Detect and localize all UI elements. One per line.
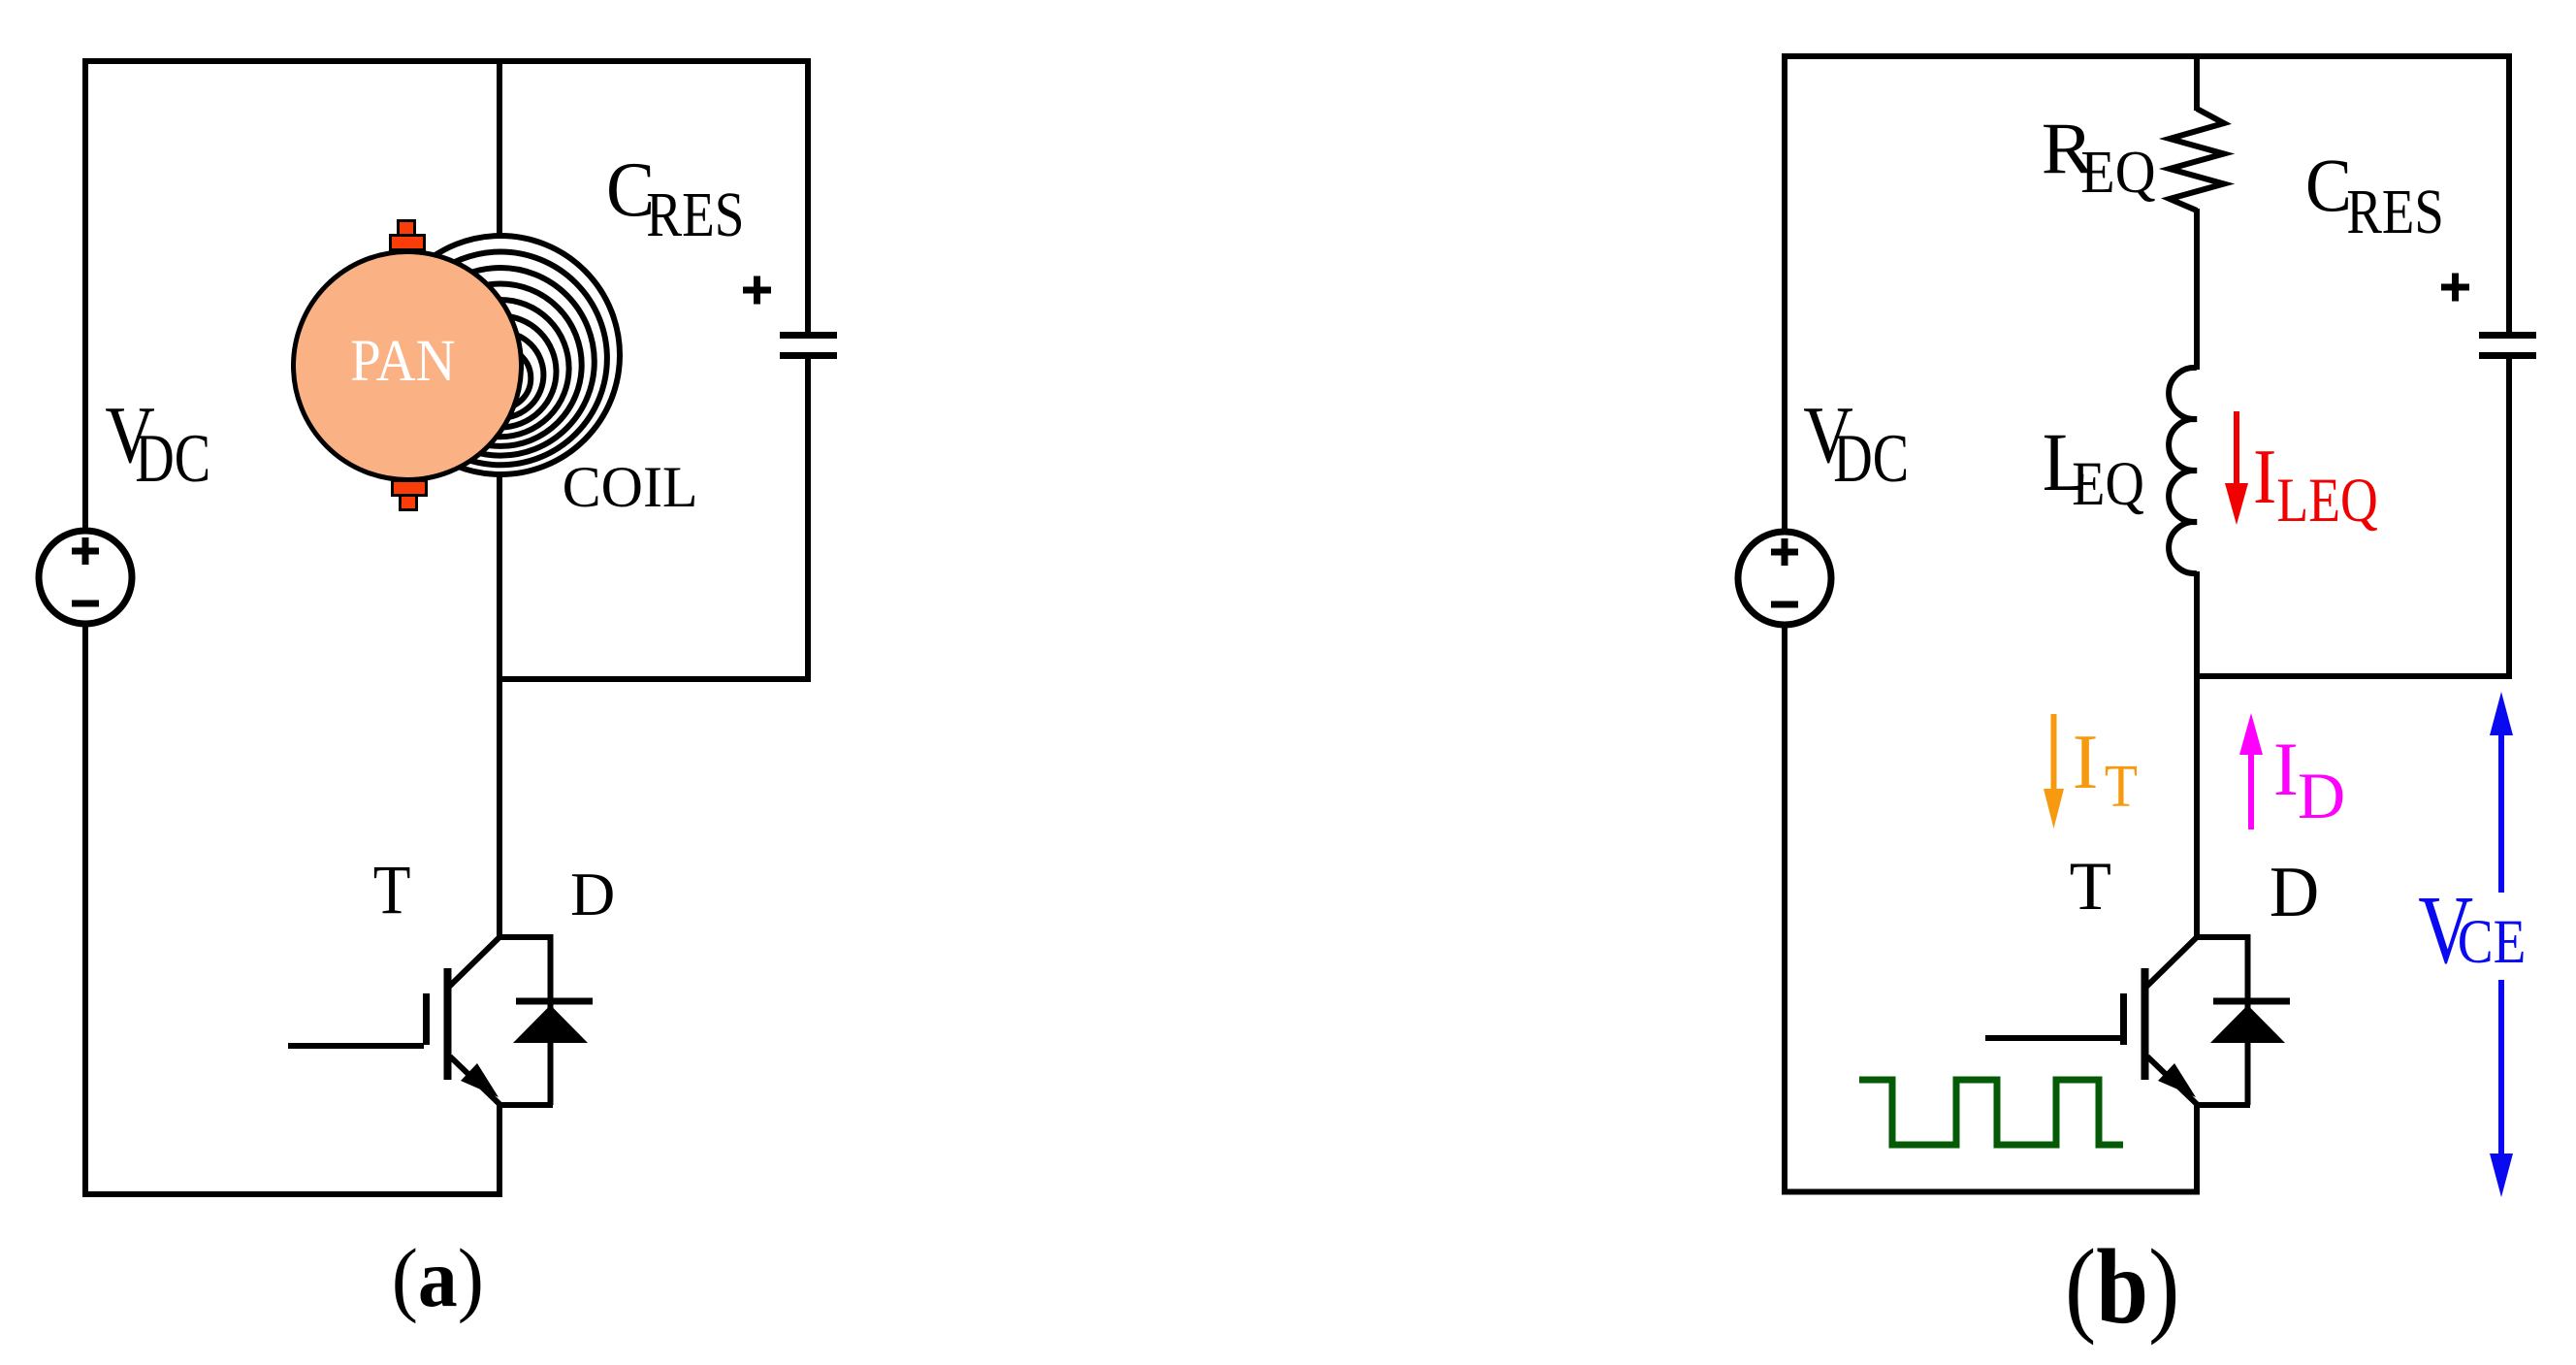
- diode triangle: [513, 1005, 588, 1043]
- current arrow I_D (magenta): [2239, 713, 2263, 829]
- label C_RES (a): [606, 146, 744, 250]
- svg-text:I: I: [2253, 432, 2276, 519]
- resistor R_EQ zigzag: [2170, 109, 2224, 211]
- svg-text:D: D: [2298, 759, 2345, 832]
- emitter corner horizontal: [2194, 1102, 2250, 1108]
- collector diagonal: [2145, 938, 2196, 988]
- wire top (b): [1782, 53, 2512, 59]
- wire right vertical upper (a): [805, 58, 811, 334]
- pan handle top stub: [399, 221, 415, 237]
- svg-text:RES: RES: [2346, 177, 2443, 247]
- voltage arrow V_CE (blue) double-headed: [2490, 692, 2513, 1197]
- wire left vertical lower (a): [82, 627, 88, 1197]
- svg-text:EQ: EQ: [2080, 139, 2155, 207]
- capacitor C_RES (b) plates: [2479, 332, 2536, 359]
- transistor T (b) IGBT: [1985, 937, 2250, 1192]
- wire middle vertical (a): [497, 58, 502, 939]
- label V_DC (a): [105, 390, 210, 497]
- emitter arrow head: [2158, 1063, 2196, 1097]
- inductor L_EQ: [2169, 368, 2197, 573]
- emitter corner horizontal: [497, 1102, 553, 1108]
- transistor T (a) IGBT: [288, 937, 553, 1194]
- svg-text:(b): (b): [2065, 1228, 2179, 1346]
- gate lead: [288, 1043, 424, 1049]
- collector corner horizontal: [497, 934, 553, 940]
- wire right vertical lower (a): [805, 355, 811, 682]
- pan handle bottom bar: [393, 481, 427, 496]
- plus sign in source (b): [1771, 538, 1798, 566]
- svg-text:PAN: PAN: [350, 328, 455, 393]
- wire inductor down to transistor: [2194, 571, 2200, 939]
- wire left vertical upper (a): [82, 58, 88, 530]
- current arrow I_LEQ (red): [2225, 411, 2248, 525]
- wire junction horizontal (b): [2194, 673, 2512, 679]
- wire left vertical lower (b): [1782, 628, 1787, 1195]
- wire right vertical lower (b): [2506, 355, 2512, 679]
- wire top (a): [82, 58, 811, 64]
- label COIL: [563, 455, 698, 519]
- label T (a): [373, 851, 411, 928]
- minus sign in source (b): [1771, 601, 1798, 608]
- svg-text:LEQ: LEQ: [2276, 465, 2377, 535]
- label (a): [392, 1232, 484, 1324]
- svg-text:COIL: COIL: [563, 455, 698, 519]
- label R_EQ: [2042, 108, 2156, 206]
- label I_T (orange): [2073, 720, 2138, 820]
- gate lead: [1985, 1035, 2121, 1041]
- wire bottom (a): [82, 1191, 502, 1197]
- emitter vertical down: [2194, 1105, 2200, 1192]
- wire left vertical upper (b): [1782, 53, 1787, 531]
- svg-text:DC: DC: [1833, 420, 1909, 497]
- plus sign of C_RES (a): [743, 276, 771, 305]
- emitter diagonal: [2147, 1056, 2198, 1105]
- label T (b): [2070, 849, 2111, 925]
- label V_DC (b): [1803, 390, 1909, 497]
- label (b): [2065, 1228, 2179, 1346]
- plus sign in source (a): [72, 537, 99, 565]
- gate bar: [423, 993, 430, 1045]
- plus sign of C_RES (b): [2441, 274, 2469, 302]
- pan handle bottom stub: [401, 496, 417, 510]
- coil spiral (a): [381, 236, 620, 474]
- wire middle vertical top (b): [2194, 53, 2200, 111]
- label D (b): [2270, 852, 2319, 932]
- diode cathode bar: [2213, 998, 2290, 1005]
- svg-text:D: D: [2270, 852, 2319, 932]
- current arrow I_T (orange): [2044, 714, 2064, 829]
- label I_D (magenta): [2273, 727, 2345, 832]
- svg-text:I: I: [2073, 720, 2099, 805]
- channel bar: [444, 968, 452, 1080]
- diode D (b): [2210, 934, 2290, 1105]
- svg-text:C: C: [2305, 144, 2352, 227]
- emitter vertical down: [497, 1105, 502, 1194]
- svg-text:D: D: [570, 860, 615, 928]
- emitter diagonal: [450, 1056, 500, 1105]
- diode D (a): [513, 934, 593, 1105]
- svg-text:EQ: EQ: [2072, 449, 2144, 519]
- svg-text:I: I: [2273, 727, 2299, 811]
- diode triangle: [2210, 1005, 2285, 1043]
- wire right vertical upper (b): [2506, 53, 2512, 334]
- gate drive square wave (green): [1859, 1080, 2123, 1145]
- voltage source V_DC circle (b): [1738, 532, 1831, 625]
- collector corner horizontal: [2194, 934, 2250, 940]
- svg-text:T: T: [2105, 752, 2138, 819]
- label PAN: [350, 328, 455, 393]
- wire bottom of C_RES loop (a): [497, 676, 811, 682]
- collector diagonal: [448, 938, 499, 988]
- emitter arrow head: [461, 1063, 499, 1097]
- diode vertical wire: [548, 934, 554, 1105]
- wire resistor to inductor: [2194, 209, 2200, 370]
- svg-text:DC: DC: [135, 420, 210, 497]
- wire bottom (b): [1782, 1189, 2200, 1195]
- capacitor C_RES (a) plates: [780, 332, 837, 359]
- label D (a): [570, 860, 615, 928]
- svg-text:T: T: [2070, 849, 2111, 925]
- gate bar: [2120, 993, 2127, 1045]
- svg-text:RES: RES: [646, 179, 744, 250]
- svg-text:CE: CE: [2458, 907, 2527, 977]
- label L_EQ: [2043, 415, 2144, 519]
- diode cathode bar: [516, 998, 593, 1005]
- voltage source V_DC circle (a): [39, 531, 132, 624]
- svg-text:T: T: [373, 851, 411, 928]
- diode vertical wire: [2245, 934, 2251, 1105]
- label I_LEQ (red): [2253, 432, 2378, 535]
- svg-text:(a): (a): [392, 1232, 484, 1324]
- pan disc (a): [294, 252, 522, 480]
- label C_RES (b): [2305, 144, 2444, 247]
- pan handle top bar: [391, 236, 425, 250]
- minus sign in source (a): [72, 601, 99, 607]
- label V_CE (blue): [2418, 875, 2526, 985]
- channel bar: [2141, 968, 2149, 1080]
